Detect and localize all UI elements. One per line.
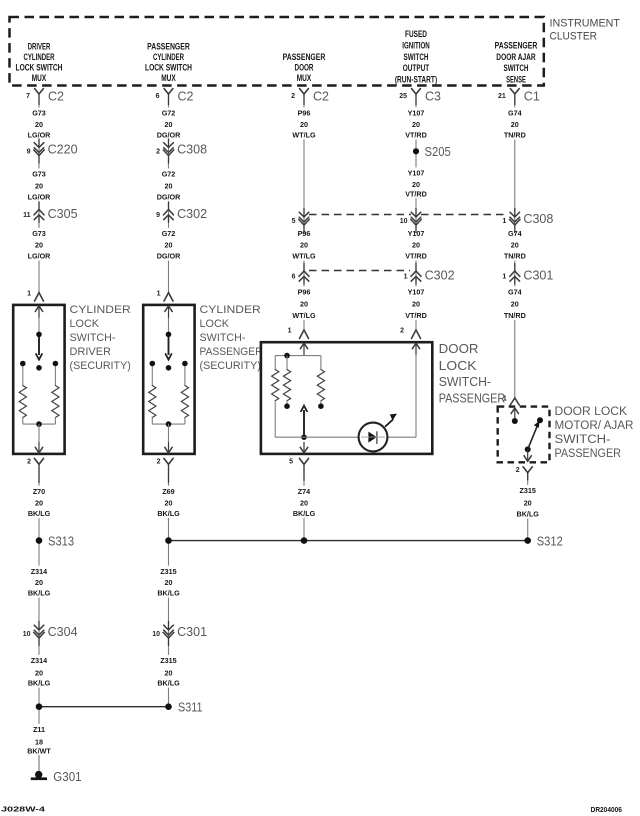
lamp (illumination LED) — [359, 423, 388, 452]
label wire Z11 18 BK/WT — [24, 724, 54, 756]
svg-text:10: 10 — [23, 631, 31, 638]
svg-text:10: 10 — [152, 631, 160, 638]
door lock switch resistor stubs — [274, 356, 276, 370]
svg-text:LG/OR: LG/OR — [28, 192, 52, 201]
svg-text:SWITCH-: SWITCH- — [555, 434, 611, 446]
svg-text:S313: S313 — [48, 535, 74, 549]
connector C304 pin 10 — [38, 621, 40, 630]
connector C302 pin 1 — [415, 263, 417, 271]
svg-text:Z314: Z314 — [31, 656, 47, 665]
svg-text:TN/RD: TN/RD — [504, 131, 526, 140]
svg-text:20: 20 — [35, 182, 43, 191]
label wire G74 20 TN/RD (3) — [500, 286, 530, 320]
svg-text:(RUN-START): (RUN-START) — [395, 74, 437, 85]
svg-text:CLUSTER: CLUSTER — [550, 31, 598, 43]
ajar switch terminal pin 2 — [527, 450, 529, 461]
svg-text:25: 25 — [399, 93, 407, 100]
svg-text:20: 20 — [35, 578, 43, 587]
svg-text:BK/LG: BK/LG — [517, 510, 540, 519]
ajar switch common contact — [525, 446, 531, 452]
svg-text:1: 1 — [502, 274, 506, 281]
svg-text:1: 1 — [27, 290, 31, 297]
svg-text:SWITCH-: SWITCH- — [70, 332, 116, 344]
label wire G73 20 LG/OR (1) — [24, 107, 54, 139]
resistor door lock 3 — [317, 370, 324, 401]
svg-text:CYLINDER: CYLINDER — [153, 52, 184, 63]
svg-text:C304: C304 — [48, 625, 78, 639]
svg-text:C302: C302 — [425, 269, 455, 283]
passenger resistor right — [181, 386, 188, 418]
svg-text:20: 20 — [300, 300, 308, 309]
passenger contact left — [150, 361, 156, 367]
svg-text:C2: C2 — [313, 90, 329, 104]
connector C2 pin 7 (instrument cluster) — [35, 89, 44, 94]
connector C2 pin 2 (instrument cluster) — [300, 89, 309, 94]
svg-text:2: 2 — [27, 458, 31, 465]
svg-text:INSTRUMENT: INSTRUMENT — [550, 18, 621, 30]
label wire P96 20 WT/LG (2) — [289, 228, 319, 261]
wire splice bus S312 — [169, 540, 528, 542]
svg-text:6: 6 — [292, 274, 296, 281]
svg-text:DRIVER: DRIVER — [28, 42, 51, 53]
connector C308 pin 2 — [168, 139, 170, 148]
svg-text:DG/OR: DG/OR — [157, 192, 181, 201]
driver switch common lead — [38, 318, 40, 332]
svg-text:PASSENGER: PASSENGER — [283, 52, 326, 63]
svg-text:20: 20 — [412, 180, 420, 189]
label wire G72 20 DG/OR (2) — [154, 168, 184, 201]
svg-text:C220: C220 — [48, 142, 78, 156]
svg-text:C305: C305 — [48, 207, 78, 221]
svg-text:G72: G72 — [162, 170, 176, 179]
svg-text:G74: G74 — [508, 288, 522, 297]
svg-text:1: 1 — [157, 290, 161, 297]
svg-text:S312: S312 — [537, 535, 563, 549]
svg-text:DOOR: DOOR — [439, 342, 479, 356]
svg-text:C2: C2 — [178, 90, 194, 104]
instrument cluster dashed box — [10, 17, 544, 86]
svg-text:10: 10 — [400, 218, 408, 225]
svg-text:LOCK: LOCK — [200, 318, 230, 330]
label wire Z74 20 BK/LG — [289, 486, 319, 518]
svg-text:20: 20 — [35, 499, 43, 508]
svg-text:20: 20 — [300, 241, 308, 250]
ajar switch terminal pin 1 — [510, 398, 519, 405]
passenger resistor join — [151, 418, 153, 425]
svg-text:VT/RD: VT/RD — [405, 189, 427, 198]
node splice on S312 bus left — [165, 537, 172, 544]
svg-text:20: 20 — [165, 241, 173, 250]
svg-text:VT/RD: VT/RD — [405, 252, 427, 261]
svg-text:Z314: Z314 — [31, 567, 47, 576]
svg-text:SWITCH-: SWITCH- — [200, 332, 246, 344]
wire passenger cyl lock mux G72 — [168, 94, 170, 293]
driver resistor join — [22, 418, 24, 425]
svg-text:CYLINDER: CYLINDER — [200, 304, 261, 316]
passenger terminal pin 2 exit — [168, 442, 170, 453]
svg-text:G74: G74 — [508, 109, 522, 118]
label wire Z315 20 BK/LG (2) — [154, 655, 184, 688]
svg-text:FUSED: FUSED — [405, 29, 427, 40]
svg-text:LOCK SWITCH: LOCK SWITCH — [145, 63, 192, 74]
svg-text:PASSENGER: PASSENGER — [200, 346, 263, 358]
label wire Y107 20 VT/RD (3) — [401, 228, 431, 261]
svg-text:PASSENGER: PASSENGER — [555, 448, 622, 460]
label wire G73 20 LG/OR (2) — [24, 168, 54, 201]
ground G301 — [38, 755, 40, 772]
svg-text:MUX: MUX — [297, 73, 312, 84]
svg-text:2: 2 — [400, 328, 404, 335]
svg-text:MUX: MUX — [161, 73, 176, 84]
connector row1 pin 10 — [415, 208, 417, 217]
svg-text:1: 1 — [404, 274, 408, 281]
wire driver lock switch output Z70/Z314 — [38, 464, 40, 772]
wire fused ignition output Y107 — [415, 94, 417, 330]
svg-text:SWITCH: SWITCH — [404, 52, 429, 63]
connector C301 pin 1 — [514, 263, 516, 271]
svg-text:DOOR AJAR: DOOR AJAR — [496, 52, 535, 63]
label wire G72 20 DG/OR (1) — [154, 107, 184, 139]
cylinder lock switch driver box — [13, 305, 64, 454]
label wire Z315 20 BK/LG (motor) — [513, 485, 543, 519]
svg-text:2: 2 — [516, 467, 520, 474]
svg-text:TN/RD: TN/RD — [504, 311, 526, 320]
svg-text:DG/OR: DG/OR — [157, 131, 181, 140]
ajar switch throw contact — [537, 417, 543, 423]
svg-text:DRIVER: DRIVER — [70, 346, 112, 358]
svg-text:7: 7 — [26, 93, 30, 100]
svg-text:G72: G72 — [162, 109, 176, 118]
svg-text:C2: C2 — [48, 90, 64, 104]
svg-text:20: 20 — [35, 120, 43, 129]
passenger contact right — [182, 361, 188, 367]
connector C3 pin 25 (instrument cluster) — [412, 89, 421, 94]
driver terminal pin 1 entry — [35, 293, 44, 302]
svg-text:G73: G73 — [32, 229, 46, 238]
svg-text:S311: S311 — [178, 701, 203, 715]
splice S312 — [524, 537, 531, 544]
svg-text:5: 5 — [292, 218, 296, 225]
svg-text:BK/LG: BK/LG — [157, 509, 180, 518]
passenger terminal pin 1 entry — [164, 293, 173, 302]
wire splice bus S311 — [39, 706, 169, 708]
svg-text:20: 20 — [300, 120, 308, 129]
svg-text:20: 20 — [300, 499, 308, 508]
svg-text:9: 9 — [27, 149, 31, 156]
svg-text:SENSE: SENSE — [506, 74, 526, 85]
svg-text:IGNITION: IGNITION — [402, 41, 430, 52]
connector C220 pin 9 — [38, 139, 40, 148]
svg-text:C3: C3 — [425, 90, 441, 104]
svg-text:18: 18 — [35, 738, 43, 747]
connector C1 pin 21 (instrument cluster) — [510, 89, 519, 94]
door lock contact 3 — [320, 401, 322, 404]
svg-text:20: 20 — [412, 241, 420, 250]
label wire Z70 20 BK/LG — [24, 486, 54, 518]
wire passenger door ajar sense G74 — [514, 94, 516, 398]
label wire G74 20 TN/RD (2) — [500, 228, 530, 261]
svg-text:LG/OR: LG/OR — [28, 131, 52, 140]
svg-text:Y107: Y107 — [408, 169, 425, 178]
svg-text:MOTOR/ AJAR: MOTOR/ AJAR — [555, 420, 634, 432]
connector C305 pin 11 — [38, 202, 40, 210]
svg-text:2: 2 — [157, 458, 161, 465]
ajar switch blade arrow — [528, 427, 537, 450]
svg-text:CYLINDER: CYLINDER — [24, 52, 55, 63]
driver resistor left — [19, 386, 26, 418]
wire door lock switch output Z74 — [303, 464, 305, 540]
svg-text:DOOR: DOOR — [295, 63, 314, 74]
svg-text:2: 2 — [156, 149, 160, 156]
label wire G72 20 DG/OR (3) — [154, 228, 184, 261]
driver switch wiper arrow — [38, 337, 40, 355]
wire connector row C308 dashed tie — [309, 214, 411, 216]
svg-text:BK/LG: BK/LG — [157, 589, 180, 598]
svg-text:20: 20 — [35, 241, 43, 250]
door lock contact 2 — [286, 401, 288, 404]
cylinder lock switch passenger box — [143, 305, 194, 454]
svg-text:1: 1 — [288, 328, 292, 335]
svg-text:20: 20 — [511, 241, 519, 250]
svg-text:Z315: Z315 — [520, 486, 536, 495]
svg-text:OUTPUT: OUTPUT — [403, 63, 430, 74]
svg-text:20: 20 — [165, 578, 173, 587]
svg-text:6: 6 — [156, 93, 160, 100]
door lock bottom bus — [275, 436, 358, 438]
svg-text:PASSENGER: PASSENGER — [147, 42, 190, 53]
label wire Z314 20 BK/LG (2) — [24, 655, 54, 688]
svg-text:BK/WT: BK/WT — [27, 747, 51, 756]
door lock switch passenger box — [261, 342, 432, 454]
svg-text:21: 21 — [498, 93, 506, 100]
svg-text:LG/OR: LG/OR — [28, 252, 52, 261]
svg-text:20: 20 — [165, 669, 173, 678]
svg-text:20: 20 — [524, 499, 532, 508]
svg-text:1: 1 — [502, 218, 506, 225]
svg-text:C301: C301 — [523, 269, 553, 283]
node splice on S312 bus — [301, 537, 308, 544]
wire passenger lock switch output Z69/Z315 — [168, 464, 170, 707]
resistor door lock 2 — [283, 370, 290, 401]
door lock switch terminal pin 2 — [412, 330, 421, 339]
svg-text:LOCK: LOCK — [439, 359, 478, 373]
svg-text:Z70: Z70 — [33, 487, 45, 496]
svg-text:P96: P96 — [298, 288, 311, 297]
svg-text:PASSENGER: PASSENGER — [439, 392, 506, 406]
wire passenger door mux P96 — [303, 94, 305, 330]
svg-text:20: 20 — [412, 120, 420, 129]
resistor door lock 1 — [272, 370, 279, 401]
door lock switch terminal pin 1 — [300, 330, 309, 339]
svg-text:Y107: Y107 — [408, 109, 425, 118]
door lock motor ajar switch dashed box — [498, 407, 550, 463]
svg-text:C308: C308 — [523, 212, 553, 226]
label wire Y107 20 VT/RD (1) — [401, 107, 431, 139]
driver resistor right — [52, 386, 59, 418]
svg-text:SWITCH-: SWITCH- — [439, 375, 491, 389]
svg-text:BK/LG: BK/LG — [28, 589, 51, 598]
svg-text:G73: G73 — [32, 109, 46, 118]
door lock switch terminal pin 5 — [303, 442, 305, 453]
svg-text:Z69: Z69 — [162, 487, 174, 496]
svg-text:LOCK: LOCK — [70, 318, 100, 330]
label wire P96 20 WT/LG (3) — [289, 286, 319, 320]
svg-text:Z315: Z315 — [160, 656, 176, 665]
svg-text:20: 20 — [35, 669, 43, 678]
door lock wiper arrow — [303, 410, 305, 437]
label wire G74 20 TN/RD (1) — [500, 107, 530, 139]
svg-text:TN/RD: TN/RD — [504, 252, 526, 261]
svg-text:20: 20 — [412, 300, 420, 309]
driver contact right — [53, 361, 59, 367]
svg-text:S205: S205 — [425, 145, 451, 159]
connector row1 pin 5 — [303, 208, 305, 217]
passenger resistor left — [149, 386, 156, 418]
svg-text:C1: C1 — [524, 90, 540, 104]
svg-text:Z315: Z315 — [160, 567, 176, 576]
svg-text:BK/LG: BK/LG — [28, 509, 51, 518]
label wire G73 20 LG/OR (3) — [24, 228, 54, 261]
svg-text:11: 11 — [23, 212, 31, 219]
door lock resistor 1 lead — [274, 401, 276, 438]
svg-text:WT/LG: WT/LG — [292, 252, 316, 261]
connector C2 pin 6 (instrument cluster) — [164, 89, 173, 94]
splice S205 — [413, 148, 419, 154]
svg-text:2: 2 — [291, 93, 295, 100]
svg-text:PASSENGER: PASSENGER — [495, 41, 538, 52]
svg-text:(SECURITY): (SECURITY) — [70, 360, 131, 372]
passenger switch wiper arrow — [168, 337, 170, 355]
svg-text:P96: P96 — [298, 109, 311, 118]
wire door lock motor ground Z315 — [527, 472, 529, 541]
svg-text:(SECURITY): (SECURITY) — [200, 360, 261, 372]
svg-text:MUX: MUX — [32, 73, 47, 84]
svg-text:CYLINDER: CYLINDER — [70, 304, 131, 316]
ajar switch fixed contact — [512, 418, 518, 424]
label wire P96 20 WT/LG (1) — [289, 107, 319, 139]
splice S313 — [36, 537, 43, 544]
svg-text:BK/LG: BK/LG — [157, 679, 180, 688]
svg-text:VT/RD: VT/RD — [405, 131, 427, 140]
door lock switch top bus — [275, 355, 321, 357]
svg-text:20: 20 — [511, 120, 519, 129]
svg-text:BK/LG: BK/LG — [28, 679, 51, 688]
svg-text:G73: G73 — [32, 170, 46, 179]
driver contact left — [20, 361, 26, 367]
splice S311 — [165, 703, 172, 710]
svg-text:SWITCH: SWITCH — [504, 63, 529, 74]
svg-text:20: 20 — [165, 499, 173, 508]
connector C308 pin 1 — [514, 208, 516, 217]
wire driver cyl lock mux G73 — [38, 94, 40, 293]
connector row2 pin 6 — [303, 263, 305, 271]
svg-text:J028W-4: J028W-4 — [1, 805, 45, 814]
svg-text:BK/LG: BK/LG — [293, 509, 316, 518]
label wire Z69 20 BK/LG — [154, 486, 184, 518]
svg-text:C301: C301 — [177, 625, 207, 639]
driver terminal pin 2 exit — [38, 442, 40, 453]
svg-text:G301: G301 — [53, 770, 81, 784]
svg-text:20: 20 — [165, 182, 173, 191]
svg-text:DR204006: DR204006 — [591, 805, 622, 814]
svg-text:1: 1 — [503, 396, 507, 403]
svg-text:C308: C308 — [177, 142, 207, 156]
svg-text:Y107: Y107 — [408, 288, 425, 297]
svg-text:20: 20 — [511, 300, 519, 309]
svg-text:20: 20 — [165, 120, 173, 129]
svg-text:DOOR LOCK: DOOR LOCK — [555, 406, 628, 418]
svg-text:C302: C302 — [177, 207, 207, 221]
svg-text:WT/LG: WT/LG — [292, 311, 316, 320]
wire connector row C302 dashed tie — [309, 270, 410, 272]
svg-text:5: 5 — [289, 458, 293, 465]
svg-text:VT/RD: VT/RD — [405, 311, 427, 320]
svg-text:DG/OR: DG/OR — [157, 252, 181, 261]
svg-text:G72: G72 — [162, 229, 176, 238]
label wire Y107 20 VT/RD (2) — [401, 167, 431, 198]
node splice on S311 bus left — [36, 703, 43, 710]
connector C302 pin 9 — [168, 202, 170, 210]
connector C301 pin 10 — [168, 621, 170, 630]
svg-text:WT/LG: WT/LG — [292, 131, 316, 140]
svg-text:Z11: Z11 — [33, 725, 45, 734]
svg-text:LOCK SWITCH: LOCK SWITCH — [16, 63, 63, 74]
label wire Z314 20 BK/LG (1) — [24, 566, 54, 598]
svg-text:Z74: Z74 — [298, 487, 310, 496]
svg-text:9: 9 — [156, 212, 160, 219]
label wire Y107 20 VT/RD (4) — [401, 286, 431, 320]
passenger switch common lead — [168, 318, 170, 332]
label wire Z315 20 BK/LG (1) — [154, 566, 184, 598]
